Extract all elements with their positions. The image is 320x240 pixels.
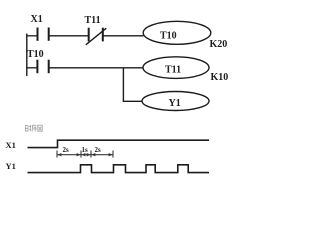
left power rail xyxy=(26,34,28,77)
svg-text:2s: 2s xyxy=(63,146,70,154)
title glyph 3 xyxy=(38,125,42,131)
contact T10 bars xyxy=(36,60,38,73)
title (timing diagram) glyph 1 xyxy=(25,125,31,131)
svg-text:T10: T10 xyxy=(160,31,177,42)
waveform Y1 xyxy=(28,165,210,173)
svg-text:Y1: Y1 xyxy=(169,98,181,109)
time annotation ticks xyxy=(57,151,113,158)
svg-text:T11: T11 xyxy=(85,15,101,26)
wire rung1 rail to X1 contact xyxy=(26,35,37,37)
svg-text:T10: T10 xyxy=(27,49,44,60)
wire X1 to T11 contact xyxy=(49,35,89,37)
waveform X1 xyxy=(28,140,210,147)
branch wire down xyxy=(122,68,124,102)
svg-text:1s: 1s xyxy=(82,146,89,154)
contact T11 (NC) bars xyxy=(88,28,90,42)
coil Y1 ellipse xyxy=(142,92,209,111)
coil T11 ellipse xyxy=(143,57,209,79)
svg-text:X1: X1 xyxy=(31,14,43,25)
contact X1 bars xyxy=(37,28,39,41)
branch wire to coil Y1 xyxy=(123,100,142,102)
wire T11 to coil T10 xyxy=(103,35,144,37)
coil T10 ellipse xyxy=(143,21,211,44)
wire T10 to coil T11 xyxy=(49,67,143,69)
svg-text:K10: K10 xyxy=(211,72,229,83)
time annotation arrowheads xyxy=(57,153,112,156)
svg-text:K20: K20 xyxy=(210,39,228,50)
svg-text:2s: 2s xyxy=(95,146,102,154)
svg-text:X1: X1 xyxy=(6,140,16,150)
title glyph 2 xyxy=(32,125,37,131)
contact T11 NC slash xyxy=(86,28,107,45)
wire rung2 rail to T10 contact xyxy=(26,67,37,69)
svg-text:T11: T11 xyxy=(165,64,181,75)
svg-text:Y1: Y1 xyxy=(6,161,16,171)
